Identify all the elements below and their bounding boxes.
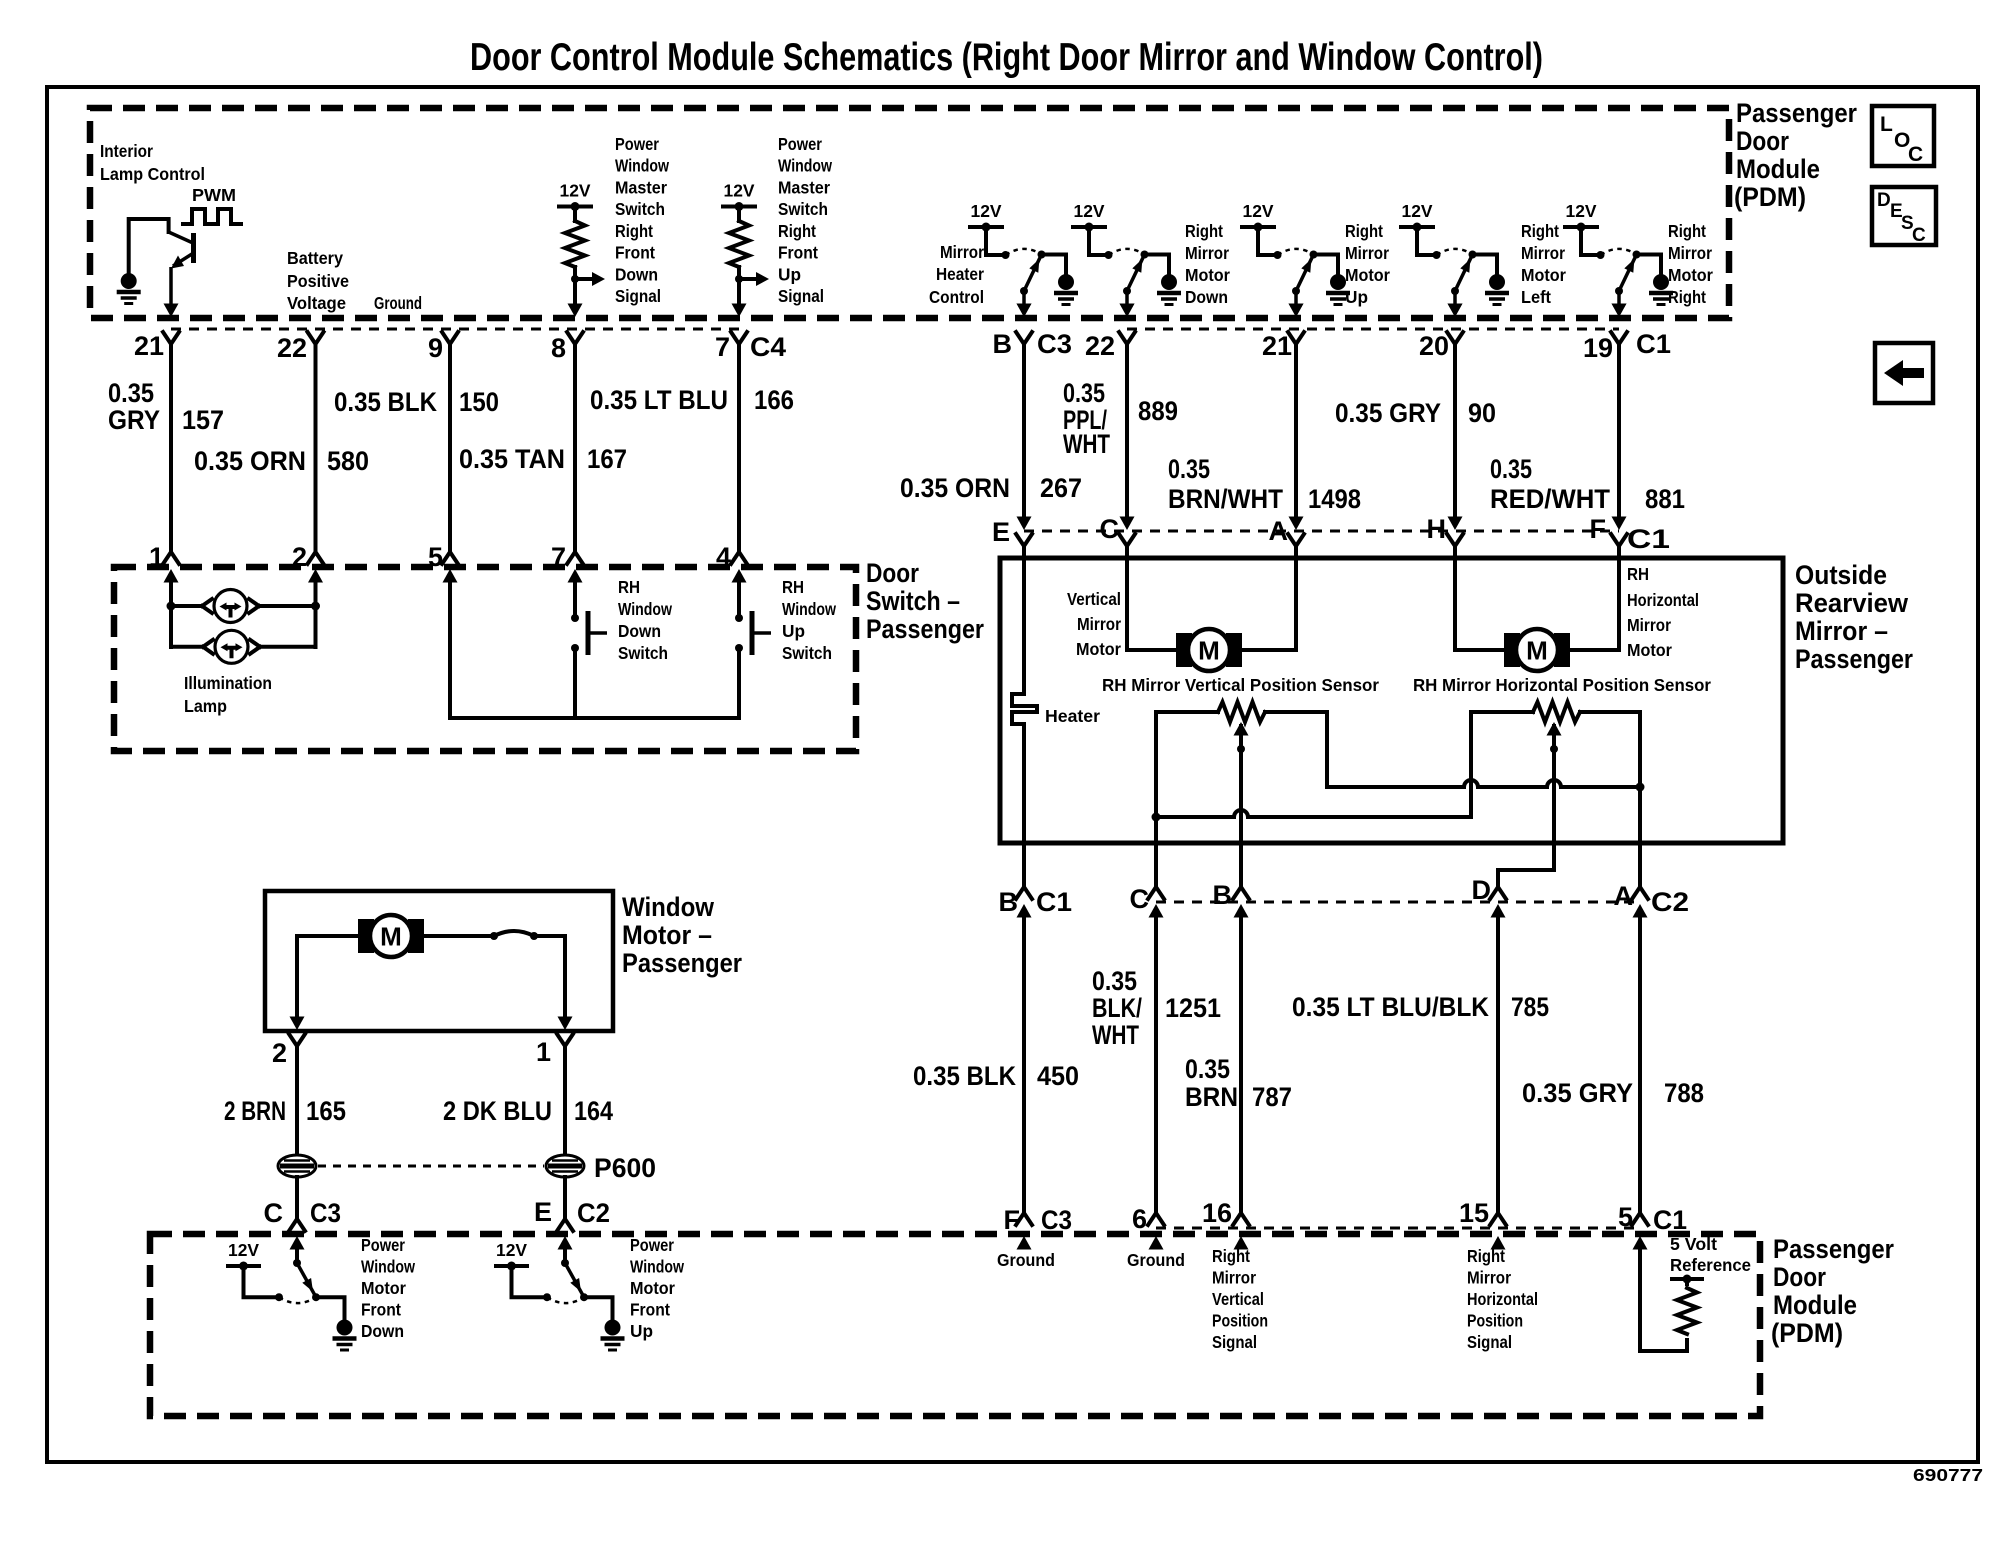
pin 20 connector row1 right <box>1419 304 1463 362</box>
svg-text:BRN/WHT: BRN/WHT <box>1168 484 1283 514</box>
svg-text:0.35 LT BLU/BLK: 0.35 LT BLU/BLK <box>1292 992 1489 1022</box>
svg-text:B: B <box>1213 880 1233 910</box>
svg-text:20: 20 <box>1419 331 1449 361</box>
svg-text:Switch: Switch <box>778 199 828 219</box>
svg-text:Up: Up <box>1345 287 1368 307</box>
svg-text:Mirror: Mirror <box>940 242 984 262</box>
back-arrow box <box>1875 343 1933 403</box>
transistor Q1 interior lamp driver <box>129 219 194 305</box>
pin 7 connector row1 and C4 name <box>715 304 786 363</box>
svg-text:C1: C1 <box>1036 887 1072 917</box>
svg-text:Illumination: Illumination <box>184 673 272 693</box>
wire heater to pin B C1 <box>1022 724 1026 888</box>
svg-text:Passenger: Passenger <box>1736 98 1857 128</box>
pin 6 bottom PDM <box>1132 1204 1164 1250</box>
vertical sensor wiper wire to pin B <box>1234 722 1249 888</box>
wire 150 BLK <box>448 344 452 552</box>
pin B connector row1 and C3 name <box>993 304 1073 360</box>
label 0.35 LT BLU 166 <box>590 385 794 415</box>
svg-text:Interior: Interior <box>100 141 153 161</box>
svg-text:1498: 1498 <box>1308 484 1361 514</box>
wire P600 to pin C <box>295 1177 299 1219</box>
svg-text:0.35: 0.35 <box>1063 378 1105 408</box>
illumination lamp 1 <box>171 590 316 623</box>
wire 267 ORN heater control <box>1022 344 1026 517</box>
svg-text:Heater: Heater <box>936 264 984 284</box>
pin E C2 bottom PDM <box>534 1197 610 1250</box>
svg-text:1: 1 <box>536 1037 551 1067</box>
Right Mirror Vertical Position Signal label <box>1212 1246 1268 1352</box>
svg-text:Rearview: Rearview <box>1795 588 1909 618</box>
RH window up push switch <box>735 611 771 655</box>
heater element <box>1012 694 1037 724</box>
svg-text:Mirror: Mirror <box>1345 243 1389 263</box>
svg-text:(PDM): (PDM) <box>1734 182 1806 212</box>
svg-text:Ground: Ground <box>374 293 422 313</box>
svg-text:E: E <box>992 517 1010 547</box>
svg-text:Down: Down <box>615 264 658 284</box>
wire P600 to pin E <box>563 1177 567 1219</box>
svg-text:690777: 690777 <box>1913 1465 1983 1485</box>
svg-text:Switch: Switch <box>782 643 832 663</box>
pin C mirror bottom <box>1130 884 1165 918</box>
svg-text:Door Control Module Schematics: Door Control Module Schematics (Right Do… <box>470 36 1543 79</box>
svg-text:0.35 ORN: 0.35 ORN <box>900 473 1010 503</box>
svg-text:Lamp Control: Lamp Control <box>100 164 205 184</box>
svg-text:Signal: Signal <box>1212 1332 1257 1352</box>
svg-text:Motor: Motor <box>1521 265 1566 285</box>
svg-text:0.35 GRY: 0.35 GRY <box>1335 398 1441 428</box>
wire 785 LT BLU/BLK <box>1496 915 1500 1214</box>
wire 450 BLK <box>1022 915 1026 1214</box>
wire up switch to common <box>737 648 741 718</box>
svg-text:Mirror: Mirror <box>1185 243 1229 263</box>
pin 19 connector row1 right and C1 name <box>1583 304 1671 364</box>
connector C1 dashed line mirror top row <box>1024 530 1619 533</box>
svg-text:Right: Right <box>1212 1246 1250 1266</box>
svg-text:2 BRN: 2 BRN <box>224 1096 286 1126</box>
svg-text:Master: Master <box>778 177 830 197</box>
resistor master switch down <box>565 221 585 267</box>
svg-text:580: 580 <box>327 446 369 476</box>
vertical position sensor resistor <box>1156 702 1327 722</box>
svg-text:2 DK BLU: 2 DK BLU <box>443 1096 552 1126</box>
svg-text:WHT: WHT <box>1092 1020 1139 1050</box>
svg-text:Switch: Switch <box>615 199 665 219</box>
svg-text:165: 165 <box>306 1096 346 1126</box>
svg-text:H: H <box>1427 514 1447 544</box>
motor circuit breaker <box>424 931 565 940</box>
pin 8 connector row1 <box>551 304 583 364</box>
svg-text:2: 2 <box>292 542 307 572</box>
label 0.35 BLK 150 <box>334 387 499 417</box>
Right Mirror Horizontal Position Signal label <box>1467 1246 1538 1352</box>
svg-text:157: 157 <box>182 405 224 435</box>
resistor master switch up <box>729 221 749 267</box>
svg-text:PWM: PWM <box>192 185 236 205</box>
svg-text:Signal: Signal <box>615 286 661 306</box>
connector dashed line mirror bottom row <box>1156 901 1640 904</box>
svg-text:Heater: Heater <box>1045 706 1100 726</box>
RH Window Up Switch label <box>782 577 836 663</box>
svg-text:C3: C3 <box>1041 1205 1072 1235</box>
wire C to vertical motor <box>1127 546 1176 650</box>
wire E into heater <box>1022 546 1026 694</box>
svg-text:Signal: Signal <box>1467 1332 1512 1352</box>
svg-text:5: 5 <box>428 542 443 572</box>
RH Horizontal Mirror Motor label <box>1627 564 1699 660</box>
pin E mirror connector <box>992 517 1032 548</box>
svg-text:Horizontal: Horizontal <box>1627 590 1699 610</box>
svg-text:Positive: Positive <box>287 271 349 291</box>
illumination lamp 2 <box>171 630 316 663</box>
svg-text:C: C <box>264 1198 284 1228</box>
wire down switch to common <box>573 648 577 718</box>
wire sensor right leg to pin A below <box>1636 712 1645 888</box>
svg-text:Passenger: Passenger <box>866 614 984 644</box>
svg-text:F: F <box>1590 514 1607 544</box>
svg-text:Window: Window <box>622 892 715 922</box>
svg-text:Motor: Motor <box>1668 265 1713 285</box>
DESC box <box>1872 187 1936 246</box>
wire A to vertical motor <box>1242 546 1296 650</box>
svg-text:Mirror: Mirror <box>1521 243 1565 263</box>
Window Motor Passenger box <box>265 891 613 1031</box>
svg-text:Up: Up <box>778 264 801 284</box>
svg-text:2: 2 <box>272 1038 287 1068</box>
label 0.35 ORN 267 <box>900 473 1082 503</box>
svg-text:Passenger: Passenger <box>622 948 742 978</box>
svg-text:L: L <box>1880 113 1893 136</box>
svg-text:450: 450 <box>1037 1061 1079 1091</box>
svg-text:Motor: Motor <box>1345 265 1390 285</box>
pin F C3 bottom PDM <box>1004 1205 1073 1250</box>
5 volt supply tap <box>1670 1275 1704 1285</box>
Passenger Door Module bottom dashed box <box>150 1234 1760 1416</box>
svg-text:Door: Door <box>1773 1262 1826 1292</box>
svg-text:5 Volt: 5 Volt <box>1670 1234 1717 1254</box>
up signal branch arrow <box>735 267 769 305</box>
mirror heater control switch <box>968 201 1078 317</box>
label 0.35 LT BLU/BLK 785 <box>1292 992 1549 1022</box>
pin B C1 mirror bottom <box>999 887 1073 918</box>
svg-text:C2: C2 <box>1651 887 1689 917</box>
svg-text:0.35: 0.35 <box>1490 454 1532 484</box>
Vertical Mirror Motor label <box>1067 589 1121 659</box>
connector C1 dashed line row1 right <box>1127 328 1619 331</box>
P600 dashed link <box>318 1165 544 1168</box>
Door Switch Passenger dashed box <box>114 567 856 751</box>
svg-text:Motor: Motor <box>1627 640 1672 660</box>
svg-text:Window: Window <box>615 156 669 176</box>
svg-text:Power: Power <box>630 1235 674 1255</box>
label 0.35 RED/WHT 881 <box>1490 454 1685 514</box>
svg-text:Module: Module <box>1736 154 1820 184</box>
svg-text:787: 787 <box>1252 1082 1292 1112</box>
svg-text:Window: Window <box>630 1257 684 1277</box>
wire 167 TAN <box>573 344 577 552</box>
pin F mirror connector and C1 name <box>1590 514 1671 554</box>
svg-text:BRN: BRN <box>1185 1082 1238 1112</box>
pin D mirror bottom <box>1472 875 1507 918</box>
svg-text:Ground: Ground <box>1127 1250 1185 1270</box>
svg-text:Switch –: Switch – <box>866 586 960 616</box>
horizontal mirror motor M <box>1504 629 1570 671</box>
pin 2 window motor <box>272 1017 305 1069</box>
svg-text:167: 167 <box>587 444 627 474</box>
svg-text:Up: Up <box>630 1321 653 1341</box>
svg-text:0.35 BLK: 0.35 BLK <box>913 1061 1016 1091</box>
svg-text:881: 881 <box>1645 484 1685 514</box>
right mirror motor left switch <box>1399 201 1509 317</box>
svg-text:Window: Window <box>782 599 836 619</box>
svg-text:Vertical: Vertical <box>1067 589 1121 609</box>
svg-text:Reference: Reference <box>1670 1255 1751 1275</box>
12V feed for master switch down <box>557 181 593 222</box>
pin C mirror connector <box>1100 514 1136 546</box>
svg-text:15: 15 <box>1459 1198 1489 1228</box>
RH window down switch wire <box>573 581 577 618</box>
svg-text:C3: C3 <box>1037 329 1072 359</box>
Passenger Door Module (PDM) top dashed box <box>90 108 1729 318</box>
interconnect level2 wire <box>1156 712 1471 817</box>
right mirror motor down switch <box>1071 201 1181 317</box>
svg-text:Front: Front <box>630 1300 670 1320</box>
RH window down push switch <box>571 611 607 655</box>
svg-text:WHT: WHT <box>1063 429 1110 459</box>
wire 165 BRN <box>295 1046 299 1155</box>
svg-text:0.35: 0.35 <box>1092 966 1137 996</box>
label 0.35 ORN 580 <box>194 446 369 476</box>
RH Window Down Switch label <box>618 577 672 663</box>
svg-text:Door: Door <box>1736 126 1789 156</box>
svg-text:0.35 BLK: 0.35 BLK <box>334 387 437 417</box>
svg-text:Ground: Ground <box>997 1250 1055 1270</box>
svg-text:19: 19 <box>1583 333 1613 363</box>
svg-text:Door: Door <box>866 558 919 588</box>
svg-text:C: C <box>1130 884 1150 914</box>
label 0.35 GRY 157 <box>108 378 224 435</box>
svg-text:Front: Front <box>778 243 818 263</box>
pin 9 connector row1 <box>428 332 458 363</box>
5 volt reference resistor <box>1677 1288 1697 1334</box>
svg-text:D: D <box>1877 190 1891 211</box>
pin H mirror connector <box>1427 514 1464 546</box>
svg-text:0.35 GRY: 0.35 GRY <box>1522 1078 1633 1108</box>
svg-text:RH: RH <box>782 577 804 597</box>
svg-text:21: 21 <box>1262 331 1292 361</box>
svg-text:D: D <box>1472 875 1492 905</box>
wire breaker to pin 1 <box>563 936 567 1018</box>
pin A mirror connector <box>1269 516 1305 546</box>
svg-text:Vertical: Vertical <box>1212 1289 1264 1309</box>
svg-text:A: A <box>1614 881 1634 911</box>
label 0.35 BRN/WHT 1498 <box>1168 454 1361 514</box>
svg-text:Position: Position <box>1467 1311 1523 1331</box>
svg-text:Master: Master <box>615 177 667 197</box>
svg-text:Left: Left <box>1521 287 1551 307</box>
svg-text:Passenger: Passenger <box>1795 644 1913 674</box>
vertical mirror motor M <box>1176 629 1242 671</box>
svg-text:RH Mirror Horizontal Position: RH Mirror Horizontal Position Sensor <box>1413 675 1711 695</box>
svg-text:5: 5 <box>1618 1202 1633 1232</box>
wire 164 DK BLU <box>563 1046 567 1155</box>
svg-text:Down: Down <box>618 621 661 641</box>
connector P600 right half <box>546 1155 584 1177</box>
svg-text:B: B <box>999 887 1019 917</box>
svg-text:Right: Right <box>1185 221 1223 241</box>
12V feed for master switch up <box>721 181 757 222</box>
svg-text:C: C <box>1100 514 1120 544</box>
pin 2 door switch <box>292 542 324 583</box>
svg-text:Front: Front <box>615 243 655 263</box>
svg-text:Window: Window <box>778 156 832 176</box>
Power Window Master Switch Right Front Down Signal label <box>615 134 669 306</box>
svg-text:C: C <box>1908 143 1923 166</box>
right mirror motor up switch <box>1240 201 1350 317</box>
svg-text:16: 16 <box>1202 1198 1232 1228</box>
horizontal position sensor resistor <box>1471 702 1640 722</box>
down signal branch arrow <box>571 267 605 305</box>
svg-text:P600: P600 <box>594 1153 656 1183</box>
Power Window Master Switch Right Front Up Signal label <box>778 134 832 306</box>
svg-text:Right: Right <box>615 221 653 241</box>
svg-text:0.35: 0.35 <box>108 378 154 408</box>
svg-text:C3: C3 <box>310 1198 341 1228</box>
wire 1251 BLK/WHT <box>1154 915 1158 1214</box>
svg-text:21: 21 <box>134 331 164 361</box>
PWM waveform <box>183 209 241 224</box>
svg-text:Outside: Outside <box>1795 560 1887 590</box>
svg-text:Down: Down <box>1185 287 1228 307</box>
pin 7 door switch <box>551 542 583 583</box>
svg-text:Mirror: Mirror <box>1668 243 1712 263</box>
svg-text:Down: Down <box>361 1321 404 1341</box>
interconnect level1 wire <box>1327 712 1640 787</box>
svg-text:Right: Right <box>1345 221 1383 241</box>
wire 157 GRY <box>169 344 173 552</box>
Outside Rearview Mirror Passenger box <box>1000 558 1783 843</box>
pin C C3 bottom PDM <box>264 1198 342 1250</box>
svg-text:90: 90 <box>1468 398 1496 428</box>
Right Mirror Motor Down label <box>1185 221 1230 307</box>
svg-text:Power: Power <box>615 134 659 154</box>
wire 881 RED/WHT <box>1617 344 1621 517</box>
svg-text:RH: RH <box>618 577 640 597</box>
svg-text:Lamp: Lamp <box>184 696 227 716</box>
Right Mirror Motor Right label <box>1668 221 1713 307</box>
wire 787 BRN <box>1239 915 1243 1214</box>
svg-text:8: 8 <box>551 333 566 363</box>
svg-text:C1: C1 <box>1636 329 1671 359</box>
Power Window Motor Front Up label <box>630 1235 684 1341</box>
svg-text:22: 22 <box>277 333 307 363</box>
svg-text:Window: Window <box>618 599 672 619</box>
svg-text:Right: Right <box>1668 287 1706 307</box>
svg-text:Front: Front <box>361 1300 401 1320</box>
wire lamp feed left <box>167 581 176 647</box>
svg-text:RED/WHT: RED/WHT <box>1490 484 1610 514</box>
svg-text:Mirror: Mirror <box>1077 614 1121 634</box>
svg-text:785: 785 <box>1511 992 1549 1022</box>
common return wire door switches <box>450 716 739 720</box>
svg-text:C2: C2 <box>577 1198 610 1228</box>
svg-text:267: 267 <box>1040 473 1082 503</box>
svg-text:Mirror: Mirror <box>1467 1268 1511 1288</box>
svg-text:Motor: Motor <box>361 1278 406 1298</box>
wire 580 ORN <box>314 344 318 552</box>
svg-text:889: 889 <box>1138 396 1178 426</box>
label 0.35 PPL/WHT 889 <box>1063 378 1178 459</box>
svg-text:Right: Right <box>1467 1246 1505 1266</box>
label 0.35 BLK 450 <box>913 1061 1079 1091</box>
svg-text:GRY: GRY <box>108 405 160 435</box>
svg-text:RH Mirror Vertical Position Se: RH Mirror Vertical Position Sensor <box>1102 675 1379 695</box>
pin 16 bottom PDM <box>1202 1198 1249 1250</box>
wire pin5 to common <box>448 581 452 718</box>
svg-text:C1: C1 <box>1627 524 1670 554</box>
wire lamp return right <box>311 581 320 647</box>
connector P600 left half <box>278 1155 316 1177</box>
label 0.35 TAN 167 <box>459 444 627 474</box>
svg-text:Horizontal: Horizontal <box>1467 1289 1538 1309</box>
svg-text:Right: Right <box>1521 221 1559 241</box>
svg-text:Battery: Battery <box>287 248 343 268</box>
pin 5 C1 bottom PDM <box>1618 1202 1687 1250</box>
svg-text:788: 788 <box>1664 1078 1704 1108</box>
pin 21 connector row1 right <box>1262 304 1304 362</box>
svg-text:Right: Right <box>1668 221 1706 241</box>
svg-text:1251: 1251 <box>1165 993 1221 1023</box>
Right Mirror Motor Left label <box>1521 221 1566 307</box>
label 0.35 BRN 787 <box>1185 1054 1292 1112</box>
svg-text:C: C <box>1912 225 1926 246</box>
svg-text:B: B <box>993 329 1013 359</box>
pin B mirror bottom <box>1213 880 1250 918</box>
pin 22 connector row1 <box>277 332 324 363</box>
svg-text:Window: Window <box>361 1257 415 1277</box>
pin 4 door switch <box>716 542 747 583</box>
svg-text:0.35 TAN: 0.35 TAN <box>459 444 565 474</box>
pin A mirror bottom and C2 name <box>1614 881 1690 918</box>
right mirror motor right switch <box>1563 201 1673 317</box>
window motor M <box>358 915 424 957</box>
svg-text:6: 6 <box>1132 1204 1147 1234</box>
svg-text:E: E <box>534 1197 552 1227</box>
svg-text:Mirror: Mirror <box>1627 615 1671 635</box>
svg-text:Signal: Signal <box>778 286 824 306</box>
svg-text:Mirror –: Mirror – <box>1795 616 1888 646</box>
svg-text:Up: Up <box>782 621 805 641</box>
wire F to horizontal motor <box>1570 546 1619 650</box>
horizontal sensor wiper wire to pin D <box>1498 722 1562 888</box>
wire 889 PPL/WHT <box>1125 344 1129 517</box>
svg-text:C1: C1 <box>1653 1205 1687 1235</box>
ground at transistor collector <box>117 273 141 304</box>
5 volt reference circuit wire <box>1640 1248 1687 1351</box>
RH window up switch wire <box>737 581 741 618</box>
svg-text:Power: Power <box>778 134 822 154</box>
svg-text:164: 164 <box>574 1096 613 1126</box>
wire motor to pin 2 <box>297 936 358 1018</box>
connector dashed line bottom row <box>1156 1227 1640 1230</box>
pin 15 bottom PDM <box>1459 1198 1506 1250</box>
svg-text:Motor: Motor <box>1185 265 1230 285</box>
svg-text:A: A <box>1269 516 1289 546</box>
wire 788 GRY <box>1638 915 1642 1214</box>
pin 1 window motor <box>536 1017 573 1068</box>
wire H to horizontal motor <box>1455 546 1504 650</box>
